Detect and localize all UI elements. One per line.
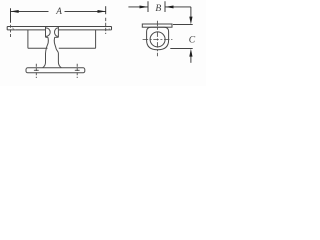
svg-text:B: B	[155, 3, 161, 14]
svg-text:C: C	[189, 34, 196, 45]
svg-text:A: A	[55, 6, 62, 16]
